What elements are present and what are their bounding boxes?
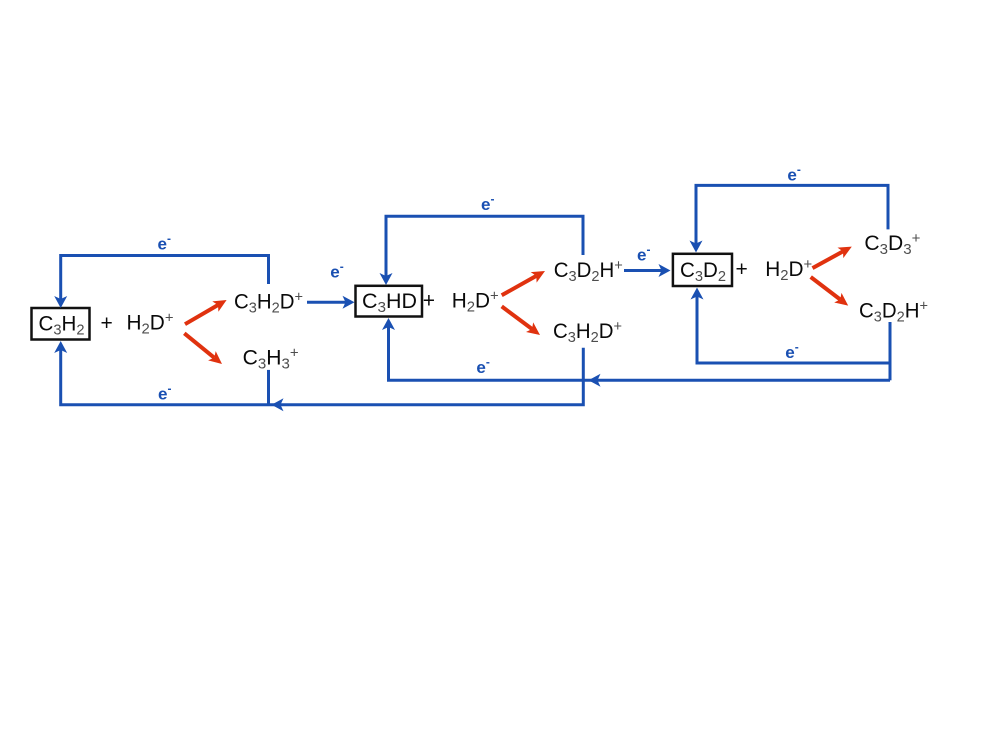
- red arrow to C3D2H+ (3 bottom): [811, 277, 841, 300]
- svg-text:C3D2H+: C3D2H+: [859, 298, 928, 326]
- wire: bottom line C3H2D+ (mid) -> C3H2: [61, 348, 584, 405]
- wire: top-right e- loop C3D3+ -> C3D2: [696, 185, 888, 243]
- svg-text:e-: e-: [637, 243, 650, 265]
- svg-text:e-: e-: [158, 232, 171, 254]
- svg-text:e-: e-: [785, 340, 798, 362]
- svg-text:e-: e-: [330, 259, 343, 281]
- svg-text:C3H2D+: C3H2D+: [234, 289, 303, 317]
- red arrow to C3D2H+: [502, 276, 537, 295]
- box C3H2: [32, 308, 90, 340]
- svg-text:C3H2: C3H2: [39, 313, 85, 339]
- svg-text:H2D+: H2D+: [452, 288, 499, 316]
- wire: C3H3+ drop to bottom line: [267, 370, 270, 405]
- red arrow to C3H3+: [184, 333, 214, 357]
- red arrow to C3D3+: [813, 251, 844, 268]
- svg-text:+: +: [736, 258, 748, 281]
- svg-text:C3H3+: C3H3+: [243, 345, 299, 373]
- svg-text:C3D2H+: C3D2H+: [554, 257, 623, 285]
- wire: bottom-right e- loop C3D2H+ -> C3D2: [889, 322, 892, 380]
- svg-text:H2D+: H2D+: [765, 256, 812, 284]
- box C3D2: [673, 254, 732, 286]
- box C3HD: [356, 286, 423, 317]
- arrowhead left on long line: [589, 374, 601, 387]
- svg-text:C3H2D+: C3H2D+: [553, 318, 622, 346]
- svg-text:C3HD: C3HD: [362, 290, 417, 316]
- svg-text:+: +: [101, 312, 113, 335]
- svg-text:e-: e-: [476, 355, 489, 377]
- blue arrow C3H2D+ -> C3HD box: [307, 301, 346, 304]
- red arrow to C3H2D+ (2 bottom): [502, 306, 532, 329]
- red arrow to C3H2D+: [185, 305, 218, 324]
- svg-text:e-: e-: [787, 162, 800, 184]
- wire: top-middle e- loop C3D2H+ -> C3HD: [386, 216, 583, 276]
- svg-text:H2D+: H2D+: [127, 310, 174, 338]
- svg-text:C3D2: C3D2: [680, 259, 726, 285]
- svg-text:C3D3+: C3D3+: [864, 230, 920, 258]
- svg-text:e-: e-: [481, 192, 494, 214]
- arrowhead left on bottom line: [272, 398, 284, 411]
- svg-text:+: +: [423, 290, 435, 313]
- svg-text:e-: e-: [158, 382, 171, 404]
- blue arrow C3D2H+ -> C3D2 box: [624, 269, 662, 272]
- wire: long e- line C3D2H+ (right) -> C3HD: [389, 327, 891, 380]
- wire: top-left e- loop C3H2D+ -> C3H2: [61, 256, 269, 300]
